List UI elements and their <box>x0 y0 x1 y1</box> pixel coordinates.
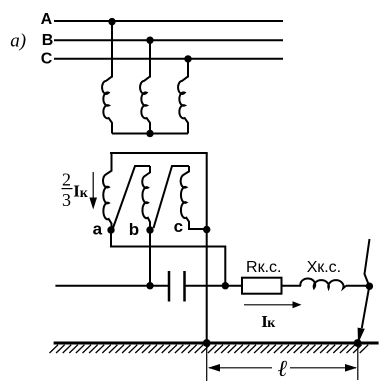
svg-text:к.с.: к.с. <box>317 259 341 276</box>
svg-text:A: A <box>41 11 53 28</box>
svg-text:2: 2 <box>62 170 71 190</box>
svg-text:R: R <box>246 259 258 276</box>
svg-text:3: 3 <box>62 190 71 210</box>
svg-text:к.с.: к.с. <box>258 259 282 276</box>
svg-text:B: B <box>42 32 54 49</box>
svg-text:к: к <box>267 316 276 331</box>
svg-text:b: b <box>129 220 139 239</box>
svg-text:X: X <box>307 259 318 276</box>
svg-text:c: c <box>174 217 183 236</box>
svg-text:a): a) <box>10 31 26 52</box>
svg-text:ℓ: ℓ <box>277 356 287 381</box>
svg-text:C: C <box>41 51 53 68</box>
svg-text:a: a <box>93 220 103 239</box>
svg-text:к: к <box>80 186 89 201</box>
